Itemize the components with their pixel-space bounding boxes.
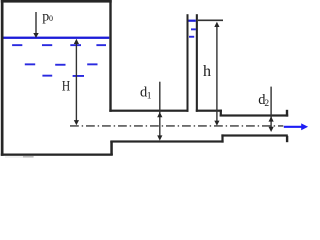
tank top wall — [1, 0, 112, 3]
H arrow — [75, 41, 77, 123]
nozzle upper wall — [220, 114, 289, 116]
piezometer tube right wall — [196, 14, 198, 112]
h arrow — [216, 24, 218, 123]
tube dash 1 — [191, 28, 196, 30]
liquid dash row2 b — [55, 64, 65, 66]
p0 arrow — [35, 12, 37, 34]
tank bottom-right step — [110, 141, 113, 155]
svg-text:h: h — [203, 63, 211, 80]
nozzle bottom end downturn — [286, 136, 288, 142]
tube dash 2 — [189, 36, 194, 38]
nozzle lower wall — [221, 134, 287, 136]
pipe upper wall right segment — [196, 110, 222, 112]
pipe centerline — [70, 125, 283, 127]
tank left wall — [1, 0, 4, 156]
liquid dash row2 c — [87, 63, 97, 65]
liquid dash row1 b — [42, 44, 52, 46]
H label — [62, 77, 71, 94]
h reference line — [198, 19, 223, 21]
svg-text:0: 0 — [49, 14, 53, 23]
liquid dash row2 a — [25, 63, 35, 65]
pipe lower wall — [110, 140, 223, 142]
nozzle top end upturn — [286, 110, 288, 117]
liquid surface — [4, 37, 110, 39]
liquid dash row1 d — [96, 44, 106, 46]
d2 dimension shaft — [270, 87, 272, 130]
tank right wall — [109, 0, 111, 112]
liquid dash row3 b (crosses H arrow) — [73, 75, 84, 77]
contraction top step — [220, 110, 222, 117]
tube liquid level — [189, 20, 196, 22]
d1 dimension shaft — [159, 82, 161, 139]
tank bottom wall — [1, 154, 113, 156]
svg-text:H: H — [62, 77, 71, 94]
piezometer tube left wall — [187, 14, 189, 112]
liquid dash row1 a — [12, 44, 22, 46]
svg-text:1: 1 — [147, 91, 152, 101]
pipe upper wall left segment — [109, 110, 188, 112]
contraction bottom step — [221, 134, 223, 142]
liquid dash row3 a — [42, 75, 52, 77]
liquid dash row1 c (under H arrowhead) — [70, 44, 81, 46]
svg-text:2: 2 — [264, 99, 269, 109]
scan artifact line under tank — [5, 156, 23, 159]
flow arrow — [284, 126, 302, 128]
